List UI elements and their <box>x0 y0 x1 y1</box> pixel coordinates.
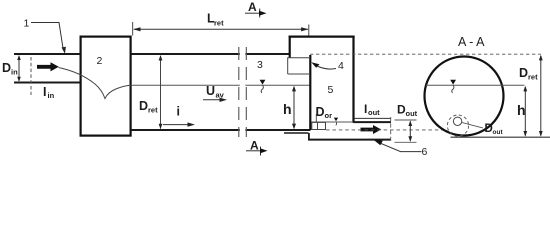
section Dret dimension <box>540 56 542 136</box>
svg-text:2: 2 <box>97 55 103 67</box>
dimension Din <box>18 56 20 81</box>
Lret extension line right <box>308 25 310 36</box>
outlet pipe outer top <box>354 117 391 119</box>
section h dimension <box>524 87 526 136</box>
overflow weir box 4 <box>288 58 310 74</box>
svg-text:out: out <box>493 129 504 136</box>
Lret extension line left <box>132 22 134 36</box>
svg-text:3: 3 <box>257 59 263 71</box>
section water symbol <box>450 80 456 85</box>
svg-text:D: D <box>519 66 528 80</box>
svg-text:I: I <box>43 85 46 99</box>
svg-text:6: 6 <box>422 146 428 158</box>
svg-text:A: A <box>248 0 257 14</box>
label 6 leader <box>381 144 422 152</box>
bold inflow arrow Iin <box>37 62 59 71</box>
section pipe circle <box>425 57 504 136</box>
chamber water line <box>312 121 353 123</box>
svg-text:ret: ret <box>528 73 538 82</box>
flow curve into chamber <box>59 68 132 99</box>
svg-text:D: D <box>316 105 325 119</box>
water level symbol in channel <box>260 80 266 85</box>
svg-text:out: out <box>368 108 380 117</box>
svg-text:h: h <box>283 101 292 117</box>
break mask <box>240 45 246 137</box>
chamber 5 left wall <box>289 36 291 58</box>
svg-text:i: i <box>177 105 180 119</box>
svg-text:D: D <box>139 99 148 113</box>
dimension h main view <box>293 87 295 128</box>
svg-text:5: 5 <box>328 84 334 96</box>
chamber 5 top wall <box>289 35 355 37</box>
orifice box <box>312 122 326 129</box>
svg-text:U: U <box>206 84 215 98</box>
arrow Uav <box>203 99 222 101</box>
crown dashed line to section <box>310 53 541 55</box>
svg-text:4: 4 <box>338 60 344 72</box>
svg-text:in: in <box>11 68 18 77</box>
dashed boundary at inlet <box>30 57 32 95</box>
outlet pipe top wall <box>354 121 392 123</box>
section outlet dashed circle <box>447 115 468 136</box>
svg-text:A - A: A - A <box>458 35 485 49</box>
svg-text:or: or <box>325 111 333 120</box>
svg-text:D: D <box>2 61 11 75</box>
svg-text:h: h <box>517 102 526 118</box>
mini water level in chamber 5 <box>334 118 338 122</box>
label 4 leader <box>316 66 336 70</box>
section ground line <box>451 136 550 138</box>
dimension line Lret <box>134 28 308 30</box>
inlet pipe bottom wall <box>14 82 80 84</box>
break line right <box>245 47 247 137</box>
svg-text:out: out <box>406 109 418 118</box>
break line left <box>238 47 240 137</box>
sump drop wall <box>308 133 310 140</box>
foundation slab line <box>284 132 309 134</box>
svg-text:ret: ret <box>148 106 158 115</box>
svg-text:I: I <box>364 102 367 116</box>
svg-text:ret: ret <box>214 19 224 28</box>
Dout dimension arrows <box>409 122 411 141</box>
inlet pipe top wall <box>14 53 80 55</box>
channel bottom wall <box>132 129 311 131</box>
svg-text:in: in <box>48 91 55 100</box>
Dor leader tick <box>315 114 317 123</box>
chamber 5 right wall <box>352 36 354 123</box>
section outlet small circle <box>453 117 461 125</box>
leader for 1 <box>31 23 63 51</box>
outlet floor <box>308 139 391 141</box>
arrow i <box>163 124 190 126</box>
channel top wall <box>132 53 290 55</box>
section water line <box>426 84 525 86</box>
leader to Dout section <box>462 123 483 129</box>
chamber 2 <box>81 37 131 136</box>
Dout extension bottom <box>395 141 417 143</box>
bold outflow arrow <box>361 125 382 134</box>
Dout extension top <box>395 119 417 121</box>
svg-text:1: 1 <box>24 18 30 30</box>
interior weir wall <box>309 55 311 130</box>
water surface line <box>132 84 310 86</box>
outlet end dashed line <box>390 117 392 143</box>
dimension Dret left <box>160 56 162 129</box>
outlet centerline dashed <box>326 129 449 131</box>
